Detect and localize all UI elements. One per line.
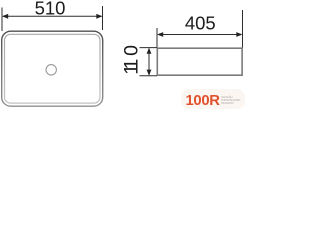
svg-text:ТЕХНИКИ: ТЕХНИКИ — [221, 101, 234, 105]
svg-text:0: 0 — [121, 45, 143, 56]
svg-text:100R: 100R — [186, 93, 221, 109]
svg-text:405: 405 — [185, 12, 216, 33]
svg-text:1: 1 — [121, 64, 143, 75]
svg-text:510: 510 — [35, 0, 66, 18]
